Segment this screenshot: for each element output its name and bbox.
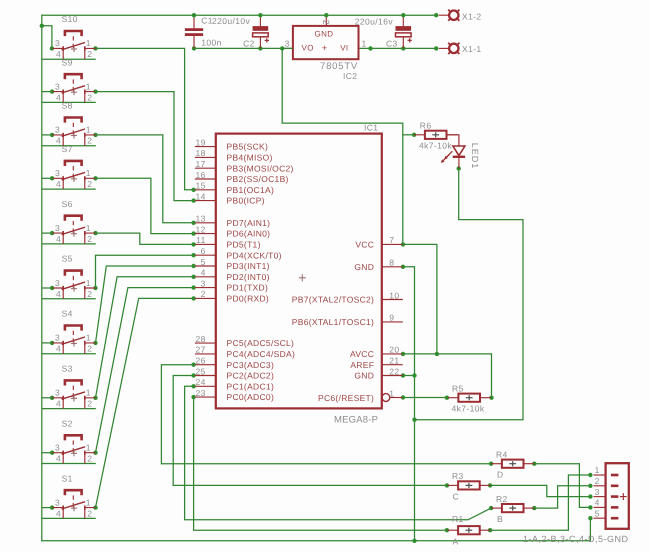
wire VCC from 5V rail to IC1 VCC pin 7 bbox=[282, 48, 403, 244]
svg-text:3: 3 bbox=[55, 125, 60, 135]
svg-text:4: 4 bbox=[56, 179, 61, 189]
wire S2 pins 4/2 ground line bbox=[42, 463, 96, 465]
wire S4 pin3 feed from bus bbox=[42, 342, 52, 344]
node S4 pin3 bbox=[50, 341, 54, 345]
wire S8 to PD7 bbox=[96, 135, 194, 223]
svg-text:26: 26 bbox=[196, 356, 206, 366]
wire AVCC pin20 to R5 right bbox=[403, 354, 492, 398]
svg-text:IC2: IC2 bbox=[343, 71, 357, 81]
node S7 pin3 bbox=[50, 176, 54, 180]
resistor R4 bbox=[491, 460, 534, 468]
wire net B R2 to connector pin 2 bbox=[534, 486, 590, 508]
node R4 right terminal bbox=[532, 462, 536, 466]
node C2 top bbox=[258, 13, 262, 17]
svg-text:4: 4 bbox=[56, 399, 61, 409]
svg-text:1: 1 bbox=[362, 38, 367, 48]
node GND pin 22 bbox=[401, 373, 405, 377]
pin numbers S6 bbox=[55, 223, 92, 244]
svg-text:18: 18 bbox=[196, 148, 206, 158]
node R2 right terminal bbox=[532, 506, 536, 510]
svg-text:3: 3 bbox=[285, 38, 290, 48]
node S1 pin3 bbox=[50, 505, 54, 509]
node GND junction pin22 bbox=[412, 373, 416, 377]
svg-text:+: + bbox=[322, 43, 328, 54]
wire S10 pin3 feed jog bbox=[42, 26, 52, 49]
pin numbers S1 bbox=[55, 497, 92, 518]
node GND junction at bus top bbox=[40, 24, 44, 28]
node R1 right terminal bbox=[488, 528, 492, 532]
svg-text:1: 1 bbox=[86, 443, 91, 453]
wire S9 pins 4/2 ground line bbox=[42, 101, 96, 103]
node C3 bottom bbox=[401, 46, 405, 50]
svg-text:4: 4 bbox=[56, 136, 61, 146]
node S4 pin1 bbox=[93, 341, 97, 345]
svg-text:PB1(OC1A): PB1(OC1A) bbox=[227, 185, 275, 195]
connector SV1 body bbox=[606, 463, 629, 529]
node X1-1 pin bbox=[434, 46, 438, 50]
node VCC branch bbox=[280, 46, 284, 50]
pin 2 PD0(RXD) of IC1 bbox=[195, 289, 269, 303]
wire GND bottom rail bbox=[41, 540, 590, 542]
svg-text:VCC: VCC bbox=[355, 240, 374, 250]
pin numbers S5 bbox=[55, 278, 92, 299]
node S7 pin1 bbox=[93, 176, 97, 180]
pin 19 PB5(SCK) of IC1 bbox=[195, 137, 268, 151]
switch S7 bbox=[52, 161, 95, 189]
svg-text:3: 3 bbox=[55, 388, 60, 398]
svg-text:X1-2: X1-2 bbox=[462, 12, 482, 22]
pin 16 PB2(SS/OC1B) of IC1 bbox=[195, 170, 289, 184]
svg-text:4: 4 bbox=[56, 49, 61, 59]
pin 5 PD3(INT1) of IC1 bbox=[195, 257, 270, 271]
resistor R5 bbox=[448, 394, 491, 402]
svg-text:8: 8 bbox=[389, 258, 394, 268]
node AVCC junction bbox=[435, 352, 439, 356]
pin 24 PC1(ADC1) of IC1 bbox=[195, 377, 274, 391]
node PC0 pin 23 bbox=[191, 395, 195, 399]
node R1 left terminal bbox=[445, 528, 449, 532]
node S8 pin3 bbox=[50, 133, 54, 137]
svg-text:1: 1 bbox=[86, 125, 91, 135]
mcu IC1 MEGA8-P body bbox=[216, 134, 382, 409]
svg-text:2: 2 bbox=[87, 136, 92, 146]
node PD7 pin end bbox=[191, 221, 195, 225]
wire S9 pin3 feed from bus bbox=[42, 91, 52, 93]
svg-text:3: 3 bbox=[55, 81, 60, 91]
pin 23 PC0(ADC0) of IC1 bbox=[195, 388, 274, 402]
svg-text:S3: S3 bbox=[62, 364, 73, 374]
svg-text:4: 4 bbox=[56, 289, 61, 299]
svg-text:2: 2 bbox=[87, 344, 92, 354]
pin 4 PD2(INT0) of IC1 bbox=[195, 268, 270, 282]
svg-text:3: 3 bbox=[55, 278, 60, 288]
svg-text:D: D bbox=[497, 470, 504, 480]
svg-text:PC3(ADC3): PC3(ADC3) bbox=[227, 360, 275, 370]
svg-text:MEGA8-P: MEGA8-P bbox=[334, 415, 378, 426]
node PD5 pin end bbox=[191, 242, 195, 246]
wire +5V VO rail (7805 out to C1/C2) bbox=[194, 47, 293, 49]
node SV1 pin 4 bbox=[588, 505, 592, 509]
svg-text:PC5(ADC5/SCL): PC5(ADC5/SCL) bbox=[227, 338, 295, 348]
wire S9 to PB0 bbox=[96, 92, 194, 201]
node C3 top bbox=[401, 13, 405, 17]
svg-text:4: 4 bbox=[201, 268, 206, 278]
svg-text:25: 25 bbox=[196, 366, 206, 376]
pin numbers S2 bbox=[55, 443, 92, 464]
pin 15 PB1(OC1A) of IC1 bbox=[195, 181, 274, 195]
svg-text:4: 4 bbox=[595, 498, 600, 508]
wire S3 pin3 feed from bus bbox=[42, 397, 52, 399]
pin 3 PD1(TXD) of IC1 bbox=[195, 278, 268, 292]
switch S5 bbox=[52, 271, 95, 299]
wire S10 to PB1 bbox=[96, 48, 194, 189]
wire S8 pin3 feed from bus bbox=[42, 134, 52, 136]
led LED1 bbox=[441, 146, 465, 169]
wire net D R4 to connector pin 4 bbox=[534, 464, 590, 508]
node C2 bottom bbox=[258, 46, 262, 50]
svg-text:PB0(ICP): PB0(ICP) bbox=[227, 196, 265, 206]
svg-text:220u/16v: 220u/16v bbox=[355, 17, 394, 27]
svg-text:C2: C2 bbox=[243, 38, 255, 48]
wire S1 pins 4/2 ground line bbox=[42, 517, 96, 519]
wire net B from PC1 pin24 to R2 bbox=[185, 386, 492, 520]
switch S3 bbox=[52, 380, 95, 408]
pin 8 GND of IC1 bbox=[354, 258, 402, 272]
svg-text:20: 20 bbox=[389, 345, 399, 355]
switch S4 bbox=[52, 326, 95, 354]
pin 26 PC3(ADC3) of IC1 bbox=[195, 356, 274, 370]
wire S7 pin3 feed from bus bbox=[42, 177, 52, 179]
wire S3 pins 4/2 ground line bbox=[42, 408, 96, 410]
pin numbers S10 bbox=[55, 38, 92, 59]
origin cross IC1 bbox=[299, 274, 306, 281]
svg-text:PC4(ADC4/SDA): PC4(ADC4/SDA) bbox=[227, 349, 296, 359]
pin numbers S4 bbox=[55, 333, 92, 354]
node PD3 pin end bbox=[191, 264, 195, 268]
wire GND branch to LED cathode bbox=[415, 169, 524, 420]
pin 1 of SV1 bbox=[594, 465, 606, 475]
svg-text:3: 3 bbox=[55, 38, 60, 48]
svg-text:S9: S9 bbox=[62, 57, 73, 67]
svg-text:12: 12 bbox=[196, 224, 206, 234]
node R2 left terminal bbox=[489, 506, 493, 510]
svg-text:5: 5 bbox=[595, 508, 600, 518]
wire GND top rail bbox=[42, 14, 436, 16]
pin 14 PB0(ICP) of IC1 bbox=[195, 191, 265, 205]
svg-text:15: 15 bbox=[196, 181, 206, 191]
svg-text:S10: S10 bbox=[62, 14, 78, 24]
svg-text:2: 2 bbox=[87, 508, 92, 518]
svg-text:X1-1: X1-1 bbox=[462, 44, 482, 54]
svg-text:LED1: LED1 bbox=[470, 143, 480, 170]
svg-text:GND: GND bbox=[354, 262, 374, 272]
pin 3 of SV1 bbox=[594, 487, 606, 497]
svg-text:27: 27 bbox=[196, 345, 206, 355]
wire GND pin22 link bbox=[403, 375, 415, 377]
svg-text:2: 2 bbox=[87, 234, 92, 244]
node PD2 pin end bbox=[191, 275, 195, 279]
wire VCC pin7 to AVCC rail bbox=[403, 244, 437, 354]
svg-text:S7: S7 bbox=[62, 144, 73, 154]
svg-text:2: 2 bbox=[87, 179, 92, 189]
svg-text:C: C bbox=[453, 491, 460, 501]
svg-text:3: 3 bbox=[55, 497, 60, 507]
svg-text:1: 1 bbox=[86, 497, 91, 507]
svg-text:PD6(AIN0): PD6(AIN0) bbox=[227, 229, 271, 239]
pin numbers S8 bbox=[55, 125, 92, 146]
node SV1 pin 2 bbox=[588, 484, 592, 488]
svg-text:4k7-10k: 4k7-10k bbox=[419, 140, 452, 150]
svg-text:2: 2 bbox=[321, 20, 331, 25]
node 7805 VI pin bbox=[368, 46, 372, 50]
svg-text:S1: S1 bbox=[62, 473, 73, 483]
svg-text:9: 9 bbox=[389, 313, 394, 323]
svg-text:100n: 100n bbox=[201, 37, 222, 47]
svg-text:PD4(XCK/T0): PD4(XCK/T0) bbox=[227, 250, 282, 260]
switch S10 bbox=[52, 31, 95, 59]
switch S2 bbox=[52, 435, 95, 463]
node PB1 pin end bbox=[191, 188, 195, 192]
node S8 pin1 bbox=[93, 133, 97, 137]
svg-text:10: 10 bbox=[389, 290, 399, 300]
svg-text:2: 2 bbox=[87, 49, 92, 59]
pin 1 PC6(/RESET) of IC1 with inversion circle bbox=[318, 388, 403, 403]
svg-text:R3: R3 bbox=[452, 471, 464, 481]
svg-text:AREF: AREF bbox=[350, 360, 374, 370]
wire VCC tap to R6 bbox=[403, 134, 414, 136]
svg-text:VO: VO bbox=[302, 44, 314, 53]
svg-text:17: 17 bbox=[196, 159, 206, 169]
node PB0 pin end bbox=[191, 198, 195, 202]
node GND branch to LED bbox=[412, 418, 416, 422]
wire net A R1 to connector pin 1 bbox=[490, 475, 590, 530]
svg-text:R6: R6 bbox=[420, 120, 432, 130]
pin 7 VCC of IC1 bbox=[355, 235, 402, 249]
svg-text:4: 4 bbox=[56, 508, 61, 518]
resistor R6 bbox=[414, 131, 457, 139]
svg-text:2: 2 bbox=[201, 289, 206, 299]
svg-text:PD2(INT0): PD2(INT0) bbox=[227, 272, 270, 282]
wire net C R3 to connector pin 3 bbox=[490, 485, 590, 496]
svg-text:13: 13 bbox=[196, 214, 206, 224]
node S2 pin3 bbox=[50, 451, 54, 455]
pin 11 PD5(T1) of IC1 bbox=[195, 235, 261, 249]
node /RESET pin 1 bbox=[401, 395, 405, 399]
svg-text:5: 5 bbox=[201, 257, 206, 267]
node AVCC pin 20 bbox=[401, 352, 405, 356]
node SV1 pin 5 bbox=[588, 516, 592, 520]
svg-text:IC1: IC1 bbox=[364, 123, 378, 133]
node R3 left terminal bbox=[445, 483, 449, 487]
svg-text:23: 23 bbox=[196, 388, 206, 398]
svg-text:S8: S8 bbox=[62, 101, 73, 111]
node PC2 pin 25 bbox=[191, 373, 195, 377]
svg-text:1: 1 bbox=[86, 38, 91, 48]
wire S10 pins 4/2 ground line bbox=[42, 58, 96, 60]
svg-text:28: 28 bbox=[196, 334, 206, 344]
node S3 pin1 bbox=[93, 396, 97, 400]
switch S1 bbox=[52, 490, 95, 518]
wire S5 pins 4/2 ground line bbox=[42, 298, 96, 300]
node C1 bottom bbox=[192, 46, 196, 50]
capacitor C2 bbox=[253, 15, 269, 48]
svg-text:16: 16 bbox=[196, 170, 206, 180]
pin 28 PC5(ADC5/SCL) of IC1 bbox=[195, 334, 294, 348]
node IC2 pin 2 bbox=[324, 13, 328, 17]
wire GND from pin8 down to bottom rail bbox=[403, 267, 415, 541]
capacitor C1 bbox=[185, 15, 203, 48]
wire S5 to PD4 bbox=[96, 255, 194, 288]
node R5 left terminal bbox=[445, 396, 449, 400]
svg-text:PD1(TXD): PD1(TXD) bbox=[227, 283, 269, 293]
svg-text:GND: GND bbox=[315, 29, 334, 38]
pin 25 PC2(ADC2) of IC1 bbox=[195, 366, 274, 380]
svg-text:1: 1 bbox=[86, 223, 91, 233]
svg-text:22: 22 bbox=[389, 366, 399, 376]
svg-text:1: 1 bbox=[86, 81, 91, 91]
svg-text:PD0(RXD): PD0(RXD) bbox=[227, 294, 270, 304]
svg-text:R1: R1 bbox=[452, 514, 464, 524]
svg-text:1-A,2-B,3-C,4-D,5-GND: 1-A,2-B,3-C,4-D,5-GND bbox=[523, 534, 629, 544]
svg-text:2: 2 bbox=[87, 399, 92, 409]
resistor R2 bbox=[491, 504, 534, 512]
wire S7 pins 4/2 ground line bbox=[42, 188, 96, 190]
pin 4 of SV1 bbox=[594, 498, 606, 508]
svg-text:PD3(INT1): PD3(INT1) bbox=[227, 261, 270, 271]
svg-text:6: 6 bbox=[201, 246, 206, 256]
svg-text:S5: S5 bbox=[62, 254, 73, 264]
svg-text:21: 21 bbox=[389, 356, 399, 366]
node S3 pin3 bbox=[50, 396, 54, 400]
wire S1 to PD0 bbox=[96, 298, 194, 507]
pin 20 AVCC of IC1 bbox=[350, 345, 403, 359]
pin 3 of IC2 (VO) bbox=[282, 47, 293, 49]
wire GND riser to connector pin 5 bbox=[589, 518, 591, 541]
svg-text:1: 1 bbox=[389, 388, 394, 398]
svg-text:S2: S2 bbox=[62, 418, 73, 428]
node GND at bottom rail bbox=[412, 539, 416, 543]
svg-text:PC2(ADC2): PC2(ADC2) bbox=[227, 371, 275, 381]
pin 12 PD6(AIN0) of IC1 bbox=[195, 224, 270, 238]
svg-text:S4: S4 bbox=[62, 309, 73, 319]
svg-text:PC0(ADC0): PC0(ADC0) bbox=[227, 392, 275, 402]
node S6 pin3 bbox=[50, 231, 54, 235]
node S1 pin1 bbox=[93, 505, 97, 509]
svg-text:GND: GND bbox=[354, 371, 374, 381]
wire S6 to PD5 bbox=[96, 233, 194, 244]
svg-text:1: 1 bbox=[86, 278, 91, 288]
wire net C from PC2 pin25 to R3 bbox=[173, 376, 447, 486]
node S5 pin1 bbox=[93, 286, 97, 290]
wire R6 to LED anode bbox=[447, 135, 459, 146]
wire S3 to PD2 bbox=[96, 277, 194, 398]
wire S7 to PD6 bbox=[96, 178, 194, 233]
svg-text:2: 2 bbox=[595, 476, 600, 486]
wire net D from PC3 pin26 to R4 bbox=[161, 365, 491, 464]
svg-text:R5: R5 bbox=[452, 384, 464, 394]
wire /RESET pin1 to R5 left bbox=[403, 397, 447, 399]
pin 17 PB3(MOSI/OC2) of IC1 bbox=[195, 159, 294, 173]
svg-text:4: 4 bbox=[56, 92, 61, 102]
svg-text:PC6(/RESET): PC6(/RESET) bbox=[318, 393, 374, 403]
wire S2 to PD1 bbox=[96, 288, 194, 453]
pin 13 PD7(AIN1) of IC1 bbox=[195, 214, 270, 228]
node S2 pin1 bbox=[93, 451, 97, 455]
svg-text:PB5(SCK): PB5(SCK) bbox=[227, 142, 269, 152]
svg-text:A: A bbox=[453, 536, 459, 546]
svg-text:24: 24 bbox=[196, 377, 206, 387]
node PC1 pin 24 bbox=[191, 384, 195, 388]
svg-text:AVCC: AVCC bbox=[350, 349, 374, 359]
node S9 pin3 bbox=[50, 89, 54, 93]
svg-text:PB4(MISO): PB4(MISO) bbox=[227, 153, 273, 163]
pin 2 of IC2 (GND) bbox=[325, 15, 327, 26]
svg-text:3: 3 bbox=[55, 223, 60, 233]
wire S5 pin3 feed from bus bbox=[42, 287, 52, 289]
svg-text:PC1(ADC1): PC1(ADC1) bbox=[227, 381, 275, 391]
wire net A from PC0 pin23 to R1 bbox=[194, 397, 447, 530]
wire S6 pin3 feed from bus bbox=[42, 232, 52, 234]
svg-text:S6: S6 bbox=[62, 199, 73, 209]
wire S1 pin3 feed from bus bbox=[42, 507, 52, 509]
resistor R3 bbox=[447, 481, 490, 489]
svg-text:B: B bbox=[497, 514, 503, 524]
svg-text:4k7-10k: 4k7-10k bbox=[452, 404, 485, 414]
resistor R1 bbox=[447, 526, 490, 534]
svg-text:14: 14 bbox=[196, 191, 206, 201]
svg-text:PD7(AIN1): PD7(AIN1) bbox=[227, 218, 271, 228]
node C1 top bbox=[192, 13, 196, 17]
svg-text:2: 2 bbox=[87, 454, 92, 464]
svg-text:PB6(XTAL1/TOSC1): PB6(XTAL1/TOSC1) bbox=[292, 317, 374, 327]
svg-text:2: 2 bbox=[87, 289, 92, 299]
svg-text:PB3(MOSI/OC2): PB3(MOSI/OC2) bbox=[227, 163, 294, 173]
pin numbers S9 bbox=[55, 81, 92, 102]
svg-text:PD5(T1): PD5(T1) bbox=[227, 240, 261, 250]
svg-text:3: 3 bbox=[55, 443, 60, 453]
node R5 right terminal bbox=[489, 396, 493, 400]
svg-text:R2: R2 bbox=[496, 494, 508, 504]
pin 6 PD4(XCK/T0) of IC1 bbox=[195, 246, 282, 260]
wire S4 to PD3 bbox=[96, 266, 194, 343]
switch S6 bbox=[52, 216, 95, 244]
node X1-2 pin bbox=[434, 13, 438, 17]
pin 9 PB6(XTAL1/TOSC1) of IC1 bbox=[292, 313, 403, 327]
wire GND left bus bbox=[41, 15, 43, 541]
pad X1-2 bbox=[439, 10, 460, 21]
node PD0 pin end bbox=[191, 296, 195, 300]
svg-text:1: 1 bbox=[86, 333, 91, 343]
pin numbers S3 bbox=[55, 388, 92, 409]
node R3 right terminal bbox=[488, 483, 492, 487]
node R4 left terminal bbox=[489, 462, 493, 466]
svg-text:VI: VI bbox=[340, 44, 348, 53]
wire S2 pin3 feed from bus bbox=[42, 452, 52, 454]
svg-text:2: 2 bbox=[87, 92, 92, 102]
svg-text:1: 1 bbox=[86, 388, 91, 398]
svg-text:220u/10v: 220u/10v bbox=[212, 16, 251, 26]
svg-text:PB7(XTAL2/TOSC2): PB7(XTAL2/TOSC2) bbox=[292, 295, 374, 305]
pin 22 GND of IC1 bbox=[354, 366, 402, 380]
wire S6 pins 4/2 ground line bbox=[42, 243, 96, 245]
pin 10 PB7(XTAL2/TOSC2) of IC1 bbox=[292, 290, 403, 304]
node LED cathode bbox=[457, 166, 461, 170]
svg-text:C3: C3 bbox=[386, 38, 398, 48]
pin 18 PB4(MISO) of IC1 bbox=[195, 148, 273, 162]
svg-text:PB2(SS/OC1B): PB2(SS/OC1B) bbox=[227, 174, 289, 184]
svg-text:1: 1 bbox=[86, 168, 91, 178]
switch S9 bbox=[52, 74, 95, 102]
